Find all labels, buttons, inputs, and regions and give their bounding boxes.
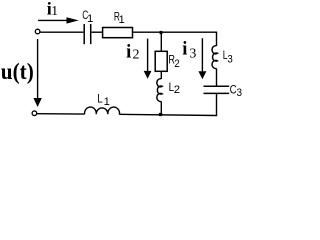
label R1 — [114, 10, 125, 26]
wire (L2 to bottom junction) — [160, 101, 162, 114]
wire (terminal to C1) — [40, 31, 83, 33]
wire (C1 to R1) — [92, 31, 102, 33]
node junction (top) — [160, 31, 163, 34]
svg-text:2: 2 — [133, 48, 140, 63]
capacitor C3 — [204, 86, 230, 93]
svg-text:i: i — [126, 43, 131, 63]
voltage arrow u(t) — [33, 39, 41, 107]
resistor R1 — [103, 28, 133, 38]
label L2 — [169, 80, 180, 96]
current label i3 — [182, 39, 196, 61]
terminal node (bottom left) — [32, 111, 37, 116]
svg-text:2: 2 — [174, 58, 179, 70]
label L1 — [97, 92, 110, 109]
node junction (bottom) — [159, 113, 162, 116]
inductor L3 — [212, 46, 217, 69]
svg-text:1: 1 — [51, 4, 58, 19]
wire (bottom, left segment) — [37, 113, 85, 115]
svg-text:L: L — [97, 92, 102, 106]
svg-text:1: 1 — [104, 96, 110, 108]
capacitor C1 — [84, 24, 91, 44]
wire (bottom, right segment) — [120, 114, 217, 115]
label C1 — [82, 8, 93, 25]
svg-text:3: 3 — [227, 54, 232, 66]
label L3 — [223, 48, 233, 66]
svg-text:i: i — [182, 39, 187, 59]
label C3 — [230, 82, 242, 99]
wire (C3 to bottom-right corner) — [216, 94, 218, 116]
svg-text:3: 3 — [189, 46, 196, 61]
wire (corner down to L3) — [216, 32, 218, 46]
svg-text:u(t): u(t) — [1, 59, 34, 84]
label u(t) — [1, 59, 34, 84]
inductor L2 — [157, 79, 162, 102]
wire (R2 to L2) — [160, 71, 162, 79]
current label i2 — [126, 43, 139, 63]
wire (L3 to C3) — [216, 69, 218, 86]
label R2 — [168, 53, 179, 70]
svg-text:3: 3 — [237, 87, 243, 99]
svg-text:1: 1 — [87, 13, 93, 25]
inductor L1 — [85, 107, 120, 115]
current arrow i2 — [144, 39, 152, 79]
resistor R2 — [155, 51, 167, 71]
current arrow i3 — [198, 38, 206, 79]
svg-text:2: 2 — [174, 84, 180, 96]
current label i1 — [47, 0, 58, 19]
current arrow i1 — [38, 17, 79, 23]
wire (R1 to top-right corner) — [133, 31, 217, 33]
svg-text:1: 1 — [119, 14, 125, 26]
wire (junction down to R2) — [160, 33, 162, 51]
terminal node (top left) — [35, 29, 40, 34]
